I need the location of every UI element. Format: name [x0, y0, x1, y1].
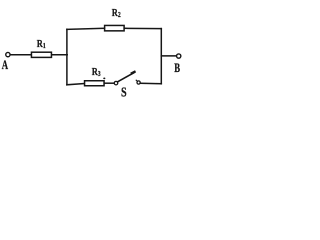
svg-text:A: A	[2, 59, 8, 73]
switch S right contact tick	[136, 80, 137, 81]
resistor R3	[85, 81, 105, 86]
wire	[10, 54, 31, 56]
ink speck above R3 right end	[103, 78, 105, 80]
svg-text:R2: R2	[112, 7, 121, 19]
wire	[52, 54, 67, 56]
terminal A	[6, 52, 10, 56]
wire (top rail right)	[124, 27, 161, 29]
wire stub to B	[161, 55, 176, 57]
wire (left vertical)	[66, 29, 68, 85]
wire	[105, 82, 114, 84]
resistor R1	[31, 52, 51, 57]
switch S pivot contact	[114, 81, 118, 85]
resistor R2	[105, 25, 125, 30]
switch S right contact	[137, 81, 140, 84]
terminal B	[177, 54, 181, 58]
wire (top rail left)	[67, 28, 105, 29]
svg-text:S: S	[121, 84, 127, 100]
svg-text:B: B	[174, 62, 180, 76]
wire (right vertical)	[160, 29, 162, 84]
wire (bottom rail left)	[67, 84, 84, 85]
switch S blade tip	[132, 72, 135, 73]
wire (bottom rail right)	[140, 82, 161, 84]
svg-text:R3: R3	[92, 66, 101, 78]
svg-text:R1: R1	[37, 38, 46, 50]
switch S blade	[118, 73, 134, 82]
